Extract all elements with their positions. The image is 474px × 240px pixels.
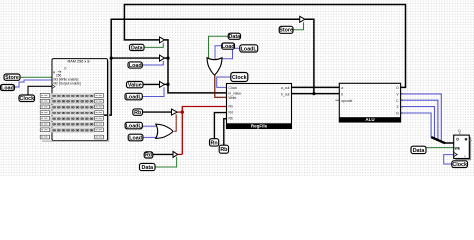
node junction A2/B2 bbox=[110, 57, 113, 60]
svg-text:0: 0 bbox=[65, 67, 67, 71]
svg-text:Store: Store bbox=[279, 28, 293, 34]
svg-text:00 00 00 00 00 00 00 00 00: 00 00 00 00 00 00 00 00 00 bbox=[52, 101, 93, 105]
splitter flag bundle bbox=[431, 137, 445, 143]
wire Load blue to OR2 input bbox=[215, 46, 222, 60]
svg-text:Data: Data bbox=[229, 34, 241, 40]
wire Data control green to B5 bbox=[155, 157, 177, 167]
svg-text:b_out: b_out bbox=[281, 92, 290, 96]
ALU right pin stubs bbox=[401, 94, 403, 113]
wire Store green to RAM bbox=[20, 76, 52, 78]
wire bus A2 from RAM D output along second top row to Store buffer bbox=[104, 19, 300, 115]
wire Clock label blue to RegFile Clock bbox=[217, 77, 231, 87]
svg-text:Clock: Clock bbox=[232, 75, 247, 81]
label pin Data (top middle) bbox=[228, 33, 240, 40]
node bus junction B3 bbox=[166, 83, 169, 86]
label pin Rb bbox=[133, 109, 143, 116]
wire branch A2 to buffer B2 input bbox=[111, 57, 159, 59]
svg-text:a: a bbox=[341, 86, 343, 90]
label pin LoadL 2 bbox=[125, 122, 142, 129]
label pin Rd bbox=[144, 152, 153, 159]
node red bus junction bbox=[181, 110, 184, 113]
ALU subcircuit block bbox=[339, 83, 400, 122]
label pin Load bbox=[1, 85, 15, 92]
label pin Rn (below RegFile) bbox=[210, 139, 219, 147]
wire B4 output to red bus bbox=[177, 111, 182, 113]
svg-text:00 00 00 00 00 00 00 00 00: 00 00 00 00 00 00 00 00 00 bbox=[52, 124, 93, 128]
wire Data green to OR2 input bbox=[209, 36, 229, 59]
tri-state buffer B5 bbox=[173, 151, 178, 157]
svg-text:Z: Z bbox=[397, 105, 399, 109]
svg-text:D: D bbox=[458, 129, 461, 133]
label pin Store bbox=[4, 74, 20, 81]
tri-state buffer B2 bbox=[160, 55, 165, 61]
label pin LoadL (top middle) bbox=[240, 45, 258, 53]
svg-text:Rb: Rb bbox=[134, 110, 142, 116]
wire Store buffer output down to b line bbox=[305, 19, 314, 93]
wire shared bus vertical to RegFile in_value bbox=[165, 40, 227, 93]
wire Data control green to B1 bbox=[144, 43, 163, 48]
svg-text:Rb: Rb bbox=[229, 117, 233, 121]
wire B2 output to bus bbox=[165, 57, 169, 59]
svg-text:O: O bbox=[396, 86, 399, 90]
wire RegFile Rb pin down to Rb label bbox=[224, 119, 227, 146]
RAM 256x8 memory block bbox=[52, 59, 108, 141]
wire Rd label to buffer B5 input bbox=[153, 153, 173, 155]
wire Store green control to B6 bbox=[293, 22, 304, 30]
or-gate OR1 bbox=[156, 124, 173, 138]
svg-text:Clock: Clock bbox=[229, 86, 238, 90]
svg-text:Rd: Rd bbox=[229, 111, 233, 115]
label pin Store (top) bbox=[279, 26, 293, 33]
RAM memory data rows bbox=[50, 93, 94, 133]
wire B3 output to bus bbox=[165, 83, 169, 85]
wire Load to OR1 bottom input bbox=[143, 136, 157, 138]
or-gate OR2 pointing down bbox=[207, 58, 222, 75]
node bus junction B2 bbox=[166, 57, 169, 60]
label pin Load 2 bbox=[128, 134, 143, 141]
svg-text:00 00 00 00 00 00 00 00 00: 00 00 00 00 00 00 00 00 00 bbox=[52, 95, 93, 99]
wire ALU C flag blue bbox=[401, 100, 438, 140]
svg-text:Rb: Rb bbox=[220, 147, 228, 153]
svg-text:LoadL: LoadL bbox=[241, 46, 258, 52]
svg-text:00 00 00 00 00 00 00 00 00: 00 00 00 00 00 00 00 00 00 bbox=[52, 129, 93, 133]
tri-state buffer B1 bbox=[160, 37, 165, 43]
RAM row side tabs bbox=[40, 94, 103, 139]
svg-text:Load: Load bbox=[222, 44, 235, 50]
label pin Data (right, flags register WE) bbox=[411, 146, 426, 154]
wire Load blue staircase to RAM bbox=[15, 80, 53, 87]
wire OR1 output up to B4 control bbox=[174, 114, 176, 131]
wire opcode stub unconnected bbox=[335, 99, 339, 101]
label pin Rb (below RegFile) bbox=[219, 145, 228, 153]
svg-text:Clock: Clock bbox=[20, 96, 35, 102]
wire Rb label to buffer B4 input bbox=[143, 111, 172, 113]
node junction on b wire bbox=[312, 92, 315, 95]
wire RegFile Rd pin down to Rn label bbox=[214, 113, 226, 139]
register Q stub bbox=[469, 139, 472, 141]
svg-text:Rn: Rn bbox=[211, 140, 218, 146]
svg-text:Value: Value bbox=[128, 83, 142, 89]
wire Load control blue to B2 bbox=[142, 61, 163, 65]
wire B5 output to red bus bbox=[178, 153, 183, 155]
svg-text:M2 [Output enable]: M2 [Output enable] bbox=[54, 81, 81, 85]
label pin Data 3 bbox=[140, 163, 156, 171]
svg-text:Load: Load bbox=[129, 135, 142, 141]
label pin Load (bus) bbox=[128, 62, 142, 69]
wire Data green to register WE bbox=[426, 147, 454, 149]
svg-text:RegFile: RegFile bbox=[251, 124, 268, 129]
wire OR2 output down to RegFile Write bbox=[215, 74, 227, 97]
svg-text:Write: Write bbox=[229, 96, 237, 100]
label pin Clock bbox=[19, 95, 35, 102]
svg-text:Data: Data bbox=[413, 148, 425, 154]
svg-text:LoadL: LoadL bbox=[126, 94, 143, 100]
wire b_out to ALU b bbox=[292, 93, 340, 95]
svg-text:Rn: Rn bbox=[229, 105, 233, 109]
register flags bbox=[454, 135, 471, 160]
wire red error bus vertical and Rn feed bbox=[182, 107, 226, 155]
svg-text:Data: Data bbox=[131, 45, 143, 51]
svg-text:ALU: ALU bbox=[365, 117, 374, 122]
wire LoadL to OR1 top input bbox=[142, 125, 156, 127]
wire bus A1 from ALU output O along top to tri-state buffer B1 bbox=[124, 5, 405, 88]
wire LoadL blue to OR2 input bbox=[221, 48, 240, 60]
svg-text:Rd: Rd bbox=[145, 153, 152, 159]
label pin LoadL bbox=[125, 93, 142, 100]
wire Value label to buffer B3 input bbox=[143, 83, 160, 85]
svg-text:b: b bbox=[341, 92, 343, 96]
wire LoadL control blue to B3 bbox=[142, 87, 164, 96]
tri-state buffer B4 bbox=[172, 109, 178, 115]
svg-text:Store: Store bbox=[5, 75, 19, 81]
svg-text:LoadL: LoadL bbox=[126, 123, 143, 129]
svg-text:Load: Load bbox=[129, 63, 142, 69]
svg-text:Clock: Clock bbox=[452, 162, 467, 168]
wire a_out to ALU a bbox=[292, 86, 340, 88]
register D stub bbox=[458, 129, 461, 135]
label pin Clock (flags register) bbox=[452, 161, 468, 168]
RegFile subcircuit block bbox=[227, 84, 292, 129]
wire ALU V flag blue bbox=[401, 94, 442, 142]
tri-state buffer B3 bbox=[160, 81, 165, 87]
svg-text:opcode: opcode bbox=[341, 99, 352, 103]
svg-text:WE: WE bbox=[455, 146, 461, 150]
svg-text:in_value: in_value bbox=[229, 92, 242, 96]
label pin Clock (RegFile) bbox=[231, 73, 248, 82]
wire Clock blue to register clock bbox=[444, 155, 454, 164]
svg-text:Load: Load bbox=[1, 85, 14, 91]
svg-text:Data: Data bbox=[142, 165, 154, 171]
wire splitter to register D bbox=[445, 142, 454, 144]
svg-text:RAM 256 x 8: RAM 256 x 8 bbox=[68, 60, 90, 64]
wire ALU Z flag blue bbox=[401, 107, 435, 139]
RAM memory contents table bbox=[42, 61, 109, 142]
label pin Value bbox=[127, 82, 144, 89]
svg-text:00 00 00 00 00 00 00 00 00: 00 00 00 00 00 00 00 00 00 bbox=[52, 112, 93, 116]
svg-text:00 00 00 00 00 00 00 00 00: 00 00 00 00 00 00 00 00 00 bbox=[52, 106, 93, 110]
tri-state buffer B6 Store bbox=[300, 16, 305, 22]
wire Clock black to RAM bbox=[28, 86, 52, 95]
wire ALU N flag blue bbox=[401, 113, 432, 138]
svg-text:x: x bbox=[464, 155, 466, 159]
svg-text:00 00 00 00 00 00 00 00 00: 00 00 00 00 00 00 00 00 00 bbox=[52, 118, 93, 122]
svg-text:a_out: a_out bbox=[281, 86, 290, 90]
label pin Load (top middle) bbox=[222, 43, 235, 50]
label pin Data (bus write enable) bbox=[130, 44, 145, 51]
